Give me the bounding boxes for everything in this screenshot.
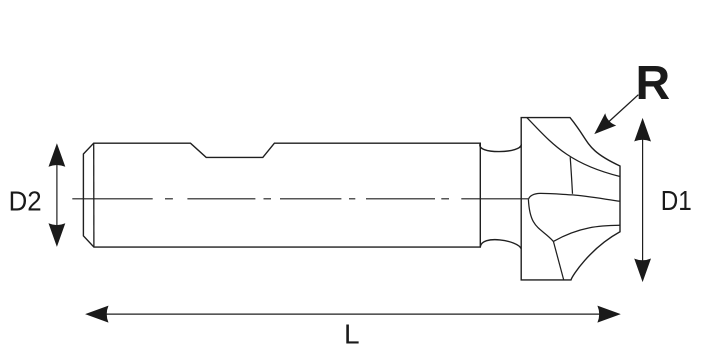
svg-text:R: R [636,57,671,110]
svg-text:L: L [344,319,360,350]
svg-text:D2: D2 [9,185,42,216]
svg-text:D1: D1 [661,185,692,216]
